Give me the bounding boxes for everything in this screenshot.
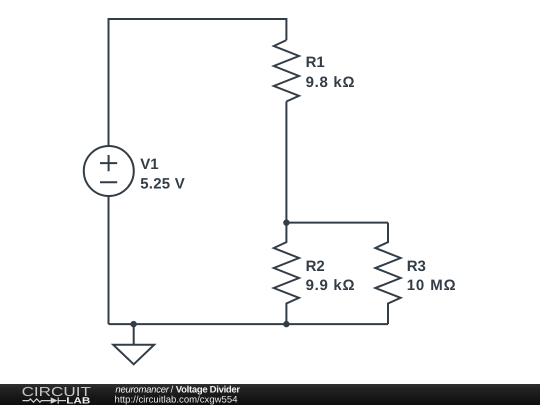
wire node horizontal [286, 222, 388, 224]
wire bottom [109, 323, 389, 325]
svg-text:R2: R2 [306, 258, 325, 275]
svg-text:5.25 V: 5.25 V [140, 176, 185, 193]
resistor R2 [274, 223, 299, 325]
node ground tap [130, 321, 136, 327]
svg-text:LAB: LAB [66, 396, 91, 405]
svg-text:R3: R3 [407, 258, 426, 275]
wire top [109, 19, 287, 146]
CircuitLab logo wire with resistor [23, 397, 67, 403]
wire left lower [108, 196, 110, 324]
footer bar [0, 384, 540, 405]
wire R1 to node [285, 102, 287, 223]
resistor R3 [375, 223, 400, 325]
svg-text:10 MΩ: 10 MΩ [407, 277, 457, 294]
resistor R1 [274, 40, 299, 101]
ground [113, 324, 154, 364]
svg-text:9.8 kΩ: 9.8 kΩ [306, 74, 356, 91]
svg-text:R1: R1 [306, 54, 325, 71]
svg-text:V1: V1 [140, 156, 158, 173]
svg-text:9.9 kΩ: 9.9 kΩ [306, 277, 356, 294]
voltage source V1 [84, 146, 134, 196]
svg-text:http://circuitlab.com/cxgw554: http://circuitlab.com/cxgw554 [115, 395, 238, 405]
CircuitLab logo diode [51, 397, 58, 403]
node bottom R2 [283, 321, 289, 327]
node A (R1/R2/R3 junction) [283, 219, 289, 225]
